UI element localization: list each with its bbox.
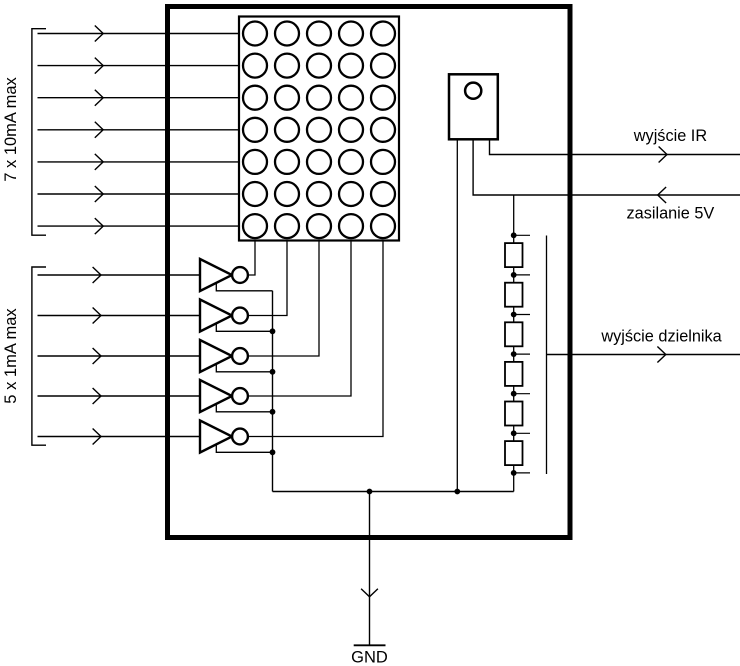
wire tap stub 1 (514, 234, 530, 236)
wire inverter 4 output to matrix column 4 (248, 241, 351, 397)
junction divider tap 6 (511, 430, 517, 436)
wire row input 3 (38, 97, 240, 99)
wire inverter 3 emitter to ground bus (216, 364, 272, 372)
svg-text:zasilanie 5V: zasilanie 5V (627, 204, 715, 222)
arrowhead wyjscie dzielnika (right) (657, 347, 665, 363)
arrowhead col input 1 (93, 267, 101, 283)
inverter 2 (200, 300, 248, 332)
IR receiver lens (465, 83, 481, 99)
junction inverter 5 / bus (270, 449, 276, 455)
wire ground bus horizontal (273, 491, 514, 493)
divider selector rail (546, 236, 548, 475)
wire emitter bus vertical (272, 291, 274, 492)
wire divider output (547, 354, 740, 356)
wire row input 5 (38, 161, 240, 163)
wire tap stub 2 (514, 274, 530, 276)
arrowhead row 5 (95, 154, 103, 170)
junction divider tap 5 (511, 391, 517, 397)
wire tap stub 3 (514, 314, 530, 316)
wire row input 6 (38, 193, 240, 195)
wire column input 4 (38, 395, 201, 397)
resistor 6 (505, 441, 523, 465)
wire GND lead (369, 492, 371, 646)
arrowhead wyjscie IR (right) (659, 147, 667, 163)
wire IR pin3 (OUT) to IR output line (490, 139, 740, 154)
svg-text:wyjście IR: wyjście IR (633, 127, 707, 145)
svg-text:wyjście dzielnika: wyjście dzielnika (600, 328, 722, 346)
wire inverter 1 emitter to ground bus (216, 283, 272, 291)
wire tap stub 7 (514, 472, 530, 474)
inverter 3 (200, 340, 248, 372)
device box outline (168, 7, 571, 538)
arrowhead col input 4 (93, 388, 101, 404)
resistor 5 (505, 402, 523, 426)
junction divider tap 7 (511, 470, 517, 476)
junction divider tap 4 (511, 351, 517, 357)
junction inverter 4 / bus (270, 409, 276, 415)
arrowhead col input 2 (93, 308, 101, 324)
ground rail bar (354, 644, 386, 646)
LED matrix display body (239, 17, 399, 241)
arrowhead row 3 (95, 90, 103, 106)
wire row input 7 (38, 225, 240, 227)
wire inverter 2 output to matrix column 2 (248, 241, 287, 316)
wire inverter 5 emitter to ground bus (216, 445, 272, 453)
arrowhead col input 5 (93, 429, 101, 445)
wire 5V feed to divider (513, 195, 515, 492)
resistor 1 (505, 243, 523, 267)
wire IR pin2 (Vs) to 5V line (473, 139, 740, 195)
bracket 5 inputs (32, 267, 46, 445)
junction divider tap 3 (511, 312, 517, 318)
IR receiver body (449, 74, 498, 139)
wire tap stub 4 (514, 353, 530, 355)
arrowhead col input 3 (93, 348, 101, 364)
junction inverter 2 / bus (270, 328, 276, 334)
inverter 4 (200, 380, 248, 412)
svg-text:GND: GND (351, 649, 388, 666)
junction divider tap 2 (511, 272, 517, 278)
arrowhead GND (down) (361, 589, 378, 597)
wire column input 3 (38, 355, 201, 357)
wire column input 1 (38, 274, 201, 276)
svg-text:5 x 1mA max: 5 x 1mA max (2, 308, 20, 404)
bracket 7 inputs (32, 29, 46, 236)
resistor 2 (505, 283, 523, 307)
inverter 1 (200, 259, 248, 291)
arrowhead row 7 (95, 218, 103, 234)
svg-text:7 x 10mA max: 7 x 10mA max (2, 76, 20, 181)
wire inverter 2 emitter to ground bus (216, 324, 272, 332)
wire tap stub 6 (514, 432, 530, 434)
wire column input 5 (38, 436, 201, 438)
wire row input 4 (38, 129, 240, 131)
arrowhead row 1 (95, 26, 103, 42)
inverter 5 (200, 421, 248, 453)
wire column input 2 (38, 315, 201, 317)
junction inverter 3 / bus (270, 369, 276, 375)
arrowhead row 4 (95, 122, 103, 138)
wire inverter 5 output to matrix column 5 (248, 241, 383, 437)
LED matrix pixels (243, 22, 395, 239)
junction ground bus / GND lead (367, 489, 373, 495)
wire inverter 3 output to matrix column 3 (248, 241, 319, 357)
wire row input 2 (38, 65, 240, 67)
wire IR pin1 (GND) to ground bus (456, 139, 458, 491)
resistor 4 (505, 362, 523, 386)
arrowhead row 2 (95, 58, 103, 74)
resistor 3 (505, 322, 523, 346)
wire row input 1 (38, 33, 240, 35)
arrowhead row 6 (95, 186, 103, 202)
arrowhead zasilanie 5V (left) (658, 187, 666, 203)
junction IR pin1 / ground bus (454, 489, 460, 495)
wire inverter 1 output to matrix column 1 (248, 241, 255, 276)
junction divider tap 1 (511, 232, 517, 238)
wire tap stub 5 (514, 393, 530, 395)
wire inverter 4 emitter to ground bus (216, 404, 272, 412)
